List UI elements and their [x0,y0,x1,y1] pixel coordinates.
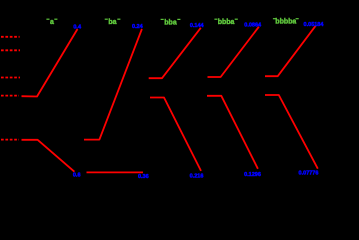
svg-text:ba: ba [108,19,116,26]
wire dashed level 3 [1,77,20,79]
svg-text:0.05184: 0.05184 [304,22,325,28]
svg-text:bbba: bbba [218,19,235,26]
svg-text:0.1296: 0.1296 [244,172,261,178]
wire dashed level 5 [1,139,19,141]
wire up branch unit2 to node "ba" [84,29,142,140]
wire dashed level 1 [1,36,20,38]
svg-text:0.6: 0.6 [73,172,81,178]
wire up branch unit1 to node "a" [22,29,78,97]
wire up branch unit4 to node "bbba" [208,27,259,77]
wire bottom connector 0.6 to 0.36 [87,171,144,173]
wire down branch unit1 to node 0.6 [22,140,75,172]
wire up branch unit3 to node "bba" [149,28,201,78]
wire dashed level 4 [1,95,19,97]
svg-text:0.4: 0.4 [73,25,82,31]
wire dashed level 2 [1,49,20,51]
wire down branch unit4 to node 0.1296 [207,96,258,169]
svg-text:0.144: 0.144 [190,23,205,29]
svg-text:0.36: 0.36 [138,174,149,180]
wire down branch unit5 to node 0.07776 [265,95,318,169]
svg-text:0.24: 0.24 [132,24,144,30]
svg-text:0.07776: 0.07776 [299,170,319,176]
wire up branch unit5 to node "bbbba" [265,26,316,76]
svg-text:bba: bba [164,19,177,26]
svg-text:0.216: 0.216 [190,174,204,180]
wire down branch unit3 to node 0.216 [150,98,201,171]
svg-text:a: a [50,19,54,26]
svg-text:0.0864: 0.0864 [244,23,262,29]
svg-text:bbbba: bbbba [275,19,296,26]
